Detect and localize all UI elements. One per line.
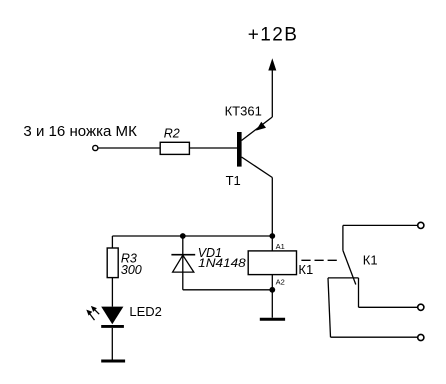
svg-text:LED2: LED2 [129,304,162,319]
wire collector diagonal [242,157,273,178]
wire R3 to LED [111,278,113,307]
ground under relay [260,318,285,321]
resistor R2 [160,142,189,154]
wire relay to ground [271,275,273,318]
svg-text:300: 300 [121,263,142,277]
wire contact middle horizontal [359,306,418,308]
dashed link line [301,259,338,261]
LED cathode bar [101,325,124,328]
svg-text:Т1: Т1 [226,173,241,188]
emitter arrow (PNP) [256,122,266,131]
svg-text:+12В: +12В [248,25,299,46]
transistor Q1 base bar [237,132,242,167]
wire emitter diagonal [242,117,273,141]
wire contact left vertical [328,278,331,337]
wire input to R2 [98,147,160,149]
wire diode bottom horizontal [183,289,272,291]
terminal top [418,222,424,228]
junction dot diode top [180,233,186,239]
terminal bottom [418,334,424,340]
wire contact top horizontal [343,224,418,226]
resistor R3 [107,248,118,278]
wire contact bottom horizontal [331,336,418,338]
wire contact step horizontal [328,277,359,279]
svg-text:К1: К1 [298,262,313,277]
ground under LED [101,360,125,363]
svg-text:КТ361: КТ361 [225,104,262,119]
wire diode vertical [182,236,184,290]
wire LED to ground [111,328,113,360]
svg-text:A2: A2 [276,277,285,286]
wire contact top vertical [342,225,344,250]
relay coil K1 box [248,251,296,275]
junction dot collector bus [269,233,275,239]
LED D1 triangle [101,307,123,325]
wire emitter vertical to +12V [271,69,273,117]
terminal middle [418,304,424,310]
wire R2 to base [189,147,237,149]
svg-text:3 и 16 ножка МК: 3 и 16 ножка МК [23,124,137,140]
wire collector vertical [271,178,273,251]
svg-text:1N4148: 1N4148 [198,256,246,270]
LED light arrow 2 [86,310,94,321]
svg-text:К1: К1 [363,252,378,267]
svg-text:A1: A1 [276,242,285,251]
switch arm [343,250,356,284]
power arrow head [268,58,276,70]
wire R3 top [111,236,113,248]
diode VD1 cathode bar [171,254,195,256]
junction dot relay bottom [269,287,275,293]
LED light arrow 1 [91,306,99,314]
svg-text:R2: R2 [164,127,180,141]
diode VD1 triangle [173,255,194,272]
input terminal circle [93,145,98,150]
wire top horizontal bus [112,235,272,237]
wire contact step vertical [358,278,360,307]
